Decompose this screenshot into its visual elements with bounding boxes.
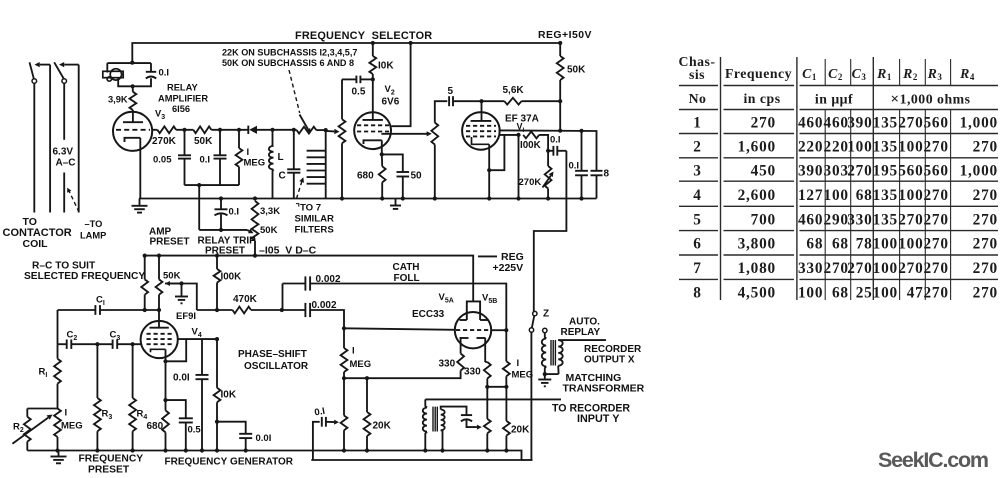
svg-text:270: 270 — [923, 260, 948, 277]
svg-text:390: 390 — [847, 115, 872, 132]
junction -105 100K — [215, 254, 219, 258]
wire S1 right — [49, 65, 51, 213]
wire osc cap to wiper — [467, 420, 477, 427]
arrow osc pot B wiper — [475, 426, 478, 428]
svg-text:100: 100 — [873, 260, 898, 277]
wire V2 cathode down — [381, 140, 383, 154]
junction 0.5 osc bus — [184, 448, 188, 452]
svg-text:270: 270 — [898, 211, 923, 228]
junction feedback line — [197, 183, 201, 187]
wire V5A grid line — [344, 328, 455, 330]
junction 20K left top — [365, 376, 369, 380]
svg-text:50: 50 — [411, 171, 423, 182]
junction 1MEG left node — [342, 376, 346, 380]
svg-text:270: 270 — [898, 115, 923, 132]
tube V1 plate bar — [471, 120, 492, 122]
junction R4 bus — [131, 448, 135, 452]
svg-text:ECC33: ECC33 — [412, 309, 445, 320]
wire 50 bottom — [402, 177, 404, 199]
svg-text:460: 460 — [798, 115, 823, 132]
junction top bus screen — [409, 41, 413, 45]
svg-text:135: 135 — [873, 139, 898, 156]
wire bottom bus — [27, 451, 521, 461]
potentiometer V2 grid — [339, 119, 346, 143]
junction trip cap top — [219, 196, 223, 200]
wire osc xfmr sec top — [441, 407, 467, 416]
arrowhead V2 out — [427, 131, 432, 136]
svg-text:I: I — [65, 408, 68, 419]
capacitor C filter — [287, 168, 300, 170]
junction 0.5 node — [371, 77, 375, 81]
junction -105 RC — [143, 254, 147, 258]
wire 1MEG relay top — [238, 130, 240, 148]
junction V1 plate node — [479, 99, 483, 103]
tube V4 grid1 dashes — [147, 333, 173, 335]
table rule 9 — [679, 278, 998, 280]
wire cap 0.1 bottom lead — [133, 78, 151, 86]
svg-text:OUTPUT X: OUTPUT X — [584, 355, 635, 366]
svg-text:0.I: 0.I — [159, 68, 170, 79]
tube V2 grid1 dashes — [357, 124, 389, 126]
svg-text:FREQUENCY: FREQUENCY — [79, 454, 144, 465]
wire V3 cathode down — [139, 138, 141, 199]
wire 3.9K to plate — [132, 110, 134, 122]
svg-text:127: 127 — [798, 187, 823, 204]
capacitor 0.1 osc — [321, 417, 323, 427]
wire plate node to 5.6K — [482, 100, 505, 102]
wire 680 bottom — [381, 182, 383, 198]
wire 50K amp pot top — [158, 256, 160, 280]
resistor 3.9K — [130, 92, 137, 110]
resistor R3 — [94, 398, 101, 431]
svg-text:270: 270 — [973, 187, 998, 204]
tube V2 envelope — [354, 112, 391, 149]
filter module line 2 — [307, 156, 326, 158]
wire 1MEG left top — [343, 328, 345, 348]
wire 20K left top — [366, 378, 368, 412]
svg-text:22K ON SUBCHASSIS I2,3,4,5,7: 22K ON SUBCHASSIS I2,3,4,5,7 — [222, 48, 357, 58]
wire 0.5 corner to pot — [341, 79, 343, 119]
wire C1 left — [58, 309, 96, 311]
tube V4 envelope — [141, 321, 178, 358]
svg-text:in cps: in cps — [743, 91, 780, 106]
wire cap C bottom — [293, 173, 295, 199]
junction 0.002 node — [280, 308, 284, 312]
wire 0.002B left — [282, 309, 306, 311]
node relay top — [130, 61, 134, 65]
svg-text:135: 135 — [873, 187, 898, 204]
potentiometer 50K relay trip — [252, 222, 259, 241]
junction 330B node — [485, 385, 489, 389]
table rule 4 — [679, 157, 998, 159]
wire V5B cathode down — [484, 338, 486, 362]
svg-text:270: 270 — [898, 260, 923, 277]
table rule 8 — [679, 254, 998, 256]
svg-text:100: 100 — [873, 236, 898, 253]
capacitor 0.1 output — [552, 146, 554, 156]
junction R4 top — [131, 342, 135, 346]
wire T2 primary top — [545, 333, 546, 339]
wire osc xfmr primary top — [425, 399, 427, 407]
wire V5A cathode down — [460, 338, 462, 354]
table vertical C2|C3 — [850, 59, 852, 300]
node relay bottom — [131, 84, 135, 88]
svg-text:PRESET: PRESET — [150, 237, 190, 248]
junction 100K node — [516, 133, 520, 137]
svg-text:100: 100 — [898, 187, 923, 204]
wire 0.002A left — [283, 283, 306, 285]
svg-text:470K: 470K — [233, 294, 258, 305]
svg-text:AUTO.: AUTO. — [569, 317, 600, 328]
wire V5B grid line — [491, 329, 507, 331]
junction 1MEG bus — [55, 448, 59, 452]
svg-text:AMPLIFIER: AMPLIFIER — [158, 94, 208, 104]
wire osc xfmr sec bottom — [441, 430, 443, 450]
wire V4 g3 box — [166, 339, 187, 361]
svg-text:OSCILLATOR: OSCILLATOR — [244, 361, 309, 372]
svg-text:1,080: 1,080 — [738, 260, 776, 277]
svg-text:100: 100 — [798, 284, 823, 301]
rheostat 270K — [545, 166, 552, 189]
wire C2-C3 — [71, 343, 112, 345]
svg-text:330: 330 — [798, 260, 823, 277]
wire 10K osc bottom — [216, 402, 218, 450]
resistor R4 — [129, 398, 136, 431]
wire g node down — [518, 135, 520, 199]
switch Z blade — [532, 316, 534, 328]
capacitor C1 — [94, 305, 96, 315]
resistor 1MEG right — [503, 361, 510, 376]
junction trip line — [219, 228, 223, 232]
junction V1 cathode bus — [487, 196, 491, 200]
wire 1MEG right bottom — [505, 376, 507, 387]
wire relay left lead — [106, 63, 108, 72]
wire inductor L top — [272, 130, 274, 146]
junction screen 10K — [215, 337, 219, 341]
svg-text:680: 680 — [357, 171, 374, 182]
wire pot left bottom — [343, 430, 345, 450]
capacitor 0.002 A — [304, 276, 306, 290]
svg-text:50K: 50K — [567, 65, 586, 76]
wire trip 0.1 bottom — [220, 214, 222, 230]
junction out caps A — [558, 129, 562, 133]
wire R3 top — [96, 344, 98, 398]
svg-text:LAMP: LAMP — [80, 231, 106, 241]
wire 0.002A right — [310, 284, 506, 331]
transformer T2 core — [551, 340, 555, 366]
resistor 10K osc — [214, 388, 221, 403]
svg-text:5: 5 — [693, 211, 701, 228]
wire pot B top — [486, 387, 488, 419]
wire 0.01B bottom — [245, 438, 247, 450]
svg-text:1,600: 1,600 — [738, 139, 776, 156]
svg-text:68: 68 — [832, 236, 849, 253]
wire R2 top — [26, 409, 28, 417]
svg-text:135: 135 — [873, 115, 898, 132]
wire C1 right — [100, 309, 159, 311]
wire cap 8 bottom — [596, 175, 598, 198]
potentiometer osc left — [341, 416, 348, 431]
wire T2 bottoms link — [545, 373, 559, 375]
junction pot B bus — [485, 448, 489, 452]
wire shunt 0.1 top — [581, 131, 583, 171]
ground V3 cathode — [132, 205, 148, 207]
resistor 1MEG relay — [236, 148, 243, 167]
svg-text:RELAY: RELAY — [167, 83, 198, 93]
table vertical freq|C1 — [796, 57, 798, 300]
tube V5 cathode B — [477, 337, 486, 339]
junction g node bus — [516, 196, 520, 200]
svg-text:TRANSFORMER: TRANSFORMER — [563, 383, 645, 395]
svg-text:270K: 270K — [152, 136, 177, 147]
wire V1 g line — [500, 134, 519, 136]
wire plate node to EF91 — [158, 310, 160, 328]
svg-text:5: 5 — [448, 86, 454, 97]
arrow trip pot wiper — [247, 230, 249, 231]
svg-text:0.I: 0.I — [314, 406, 326, 419]
tube V5 grid dashes — [456, 329, 490, 331]
svg-text:L: L — [278, 152, 284, 163]
tube V3 plate bar — [123, 121, 143, 123]
ground stub amp — [181, 284, 183, 296]
svg-text:8: 8 — [693, 284, 701, 301]
svg-text:270: 270 — [973, 139, 998, 156]
potentiometer V1 grid — [431, 123, 438, 145]
svg-text:270: 270 — [923, 187, 948, 204]
wire 0.05 cap bottom — [184, 159, 186, 186]
svg-text:COIL: COIL — [23, 238, 49, 250]
resistor 330 B — [484, 362, 491, 379]
svg-text:0.0I: 0.0I — [256, 433, 272, 444]
switch S1 contact — [32, 79, 37, 84]
capacitor 0.05 — [178, 154, 191, 156]
capacitor 0.5 osc — [179, 417, 193, 419]
svg-text:1,000: 1,000 — [960, 115, 998, 132]
resistor R-C — [141, 279, 148, 294]
wire cathode node link — [487, 386, 506, 388]
wire 0.1b cap bottom — [219, 159, 221, 186]
ground stub T2 — [544, 374, 546, 379]
wire cap5 to plate — [453, 100, 482, 102]
svg-text:PHASE–SHIFT: PHASE–SHIFT — [238, 349, 307, 360]
table rule 2 — [679, 109, 998, 111]
svg-text:100: 100 — [824, 187, 849, 204]
junction 1MEG right node — [504, 385, 508, 389]
wire R1 bottom — [57, 384, 59, 409]
svg-text:50K: 50K — [163, 271, 181, 282]
arrow amp pot wiper — [170, 283, 182, 285]
svg-text:sis: sis — [689, 67, 705, 82]
svg-text:270: 270 — [847, 163, 872, 180]
wire 100K osc bottom — [216, 283, 218, 310]
resistor 470K — [233, 307, 252, 314]
svg-text:450: 450 — [751, 163, 776, 180]
wire S2 left down lower — [63, 173, 65, 213]
capacitor 0.1 shunt — [575, 170, 588, 172]
table rule 6 — [679, 205, 998, 207]
wire 100K right — [539, 135, 548, 166]
wire C2 left — [58, 343, 67, 345]
junction V2 pot bus — [340, 196, 344, 200]
svg-text:0.I: 0.I — [229, 207, 240, 218]
wire 50K 150V top — [559, 43, 561, 56]
wire feedback vertical — [198, 185, 200, 230]
tube V2 cathode — [364, 140, 382, 144]
svg-text:2,600: 2,600 — [738, 187, 776, 204]
tube V2 grid2 dashes — [357, 131, 389, 133]
svg-text:1: 1 — [693, 115, 701, 132]
wire C1 corner down — [57, 310, 59, 344]
ground stub freq preset — [58, 451, 60, 456]
wire osc xfmr primary bottom — [425, 432, 427, 451]
svg-text:270: 270 — [923, 236, 948, 253]
wire pot left top — [343, 378, 345, 415]
svg-text:68: 68 — [806, 236, 823, 253]
switch S1 blade — [30, 62, 34, 78]
wire pot B bottom — [486, 433, 488, 450]
svg-text:0.0I: 0.0I — [173, 373, 190, 384]
wire wiper node to 470K — [197, 309, 233, 311]
wire 0.1b cap top — [219, 130, 221, 156]
wire 330B top link — [485, 361, 487, 363]
wire 10K osc top — [216, 339, 218, 388]
svg-text:MEG: MEG — [512, 370, 534, 381]
svg-text:560: 560 — [898, 163, 923, 180]
capacitor 0.01 osc — [196, 374, 209, 376]
wire 330B bottom — [486, 379, 488, 387]
capacitor 0.1 relay — [146, 71, 156, 73]
svg-text:I00K: I00K — [221, 272, 242, 283]
junction 0.01B tap — [215, 420, 219, 424]
svg-text:6I56: 6I56 — [172, 104, 190, 114]
capacitor 0.002 B — [304, 303, 306, 317]
wire 20K right bottom — [505, 436, 507, 451]
filter module line 5 — [307, 176, 326, 178]
svg-text:I00K: I00K — [520, 140, 541, 151]
junction 100K plate line — [215, 308, 219, 312]
wire 270K bottom — [547, 189, 549, 199]
svg-text:MEG: MEG — [244, 158, 266, 169]
svg-text:3: 3 — [693, 163, 701, 180]
junction 0.1 out node — [546, 149, 550, 153]
junction 20K right bus — [504, 448, 508, 452]
potentiometer 1MEG freq — [54, 409, 61, 438]
capacitor 8 — [591, 170, 603, 172]
table vertical C1|C2 — [824, 59, 826, 300]
resistor 680 — [379, 166, 386, 182]
svg-text:I0K: I0K — [378, 61, 394, 72]
svg-text:25: 25 — [856, 284, 873, 301]
ground V3 stub — [139, 199, 141, 206]
svg-text:+225V: +225V — [493, 262, 524, 274]
svg-text:0.I: 0.I — [550, 135, 561, 146]
junction 270K bus — [546, 196, 550, 200]
svg-text:MEG: MEG — [61, 421, 83, 432]
capacitor 0.01 B — [239, 433, 252, 435]
svg-text:No: No — [689, 91, 707, 106]
capacitor 5 — [448, 96, 450, 106]
svg-text:4,500: 4,500 — [738, 284, 776, 301]
junction 0.5 tap — [163, 398, 167, 402]
switch S2 blade — [54, 62, 64, 78]
svg-text:303: 303 — [824, 163, 849, 180]
table rule 5 — [679, 180, 998, 182]
junction top bus 10K — [371, 41, 375, 45]
wire V2 out — [381, 133, 427, 135]
svg-text:220: 220 — [824, 139, 849, 156]
svg-text:FILTERS: FILTERS — [295, 225, 335, 236]
wire 10K bottom — [372, 74, 374, 79]
wire k box — [489, 135, 504, 170]
svg-text:220: 220 — [798, 139, 823, 156]
svg-text:A–C: A–C — [56, 158, 76, 169]
svg-text:560: 560 — [923, 163, 948, 180]
junction 1MEG relay — [237, 128, 241, 132]
ground main bus — [390, 205, 401, 207]
switch S2 contact — [62, 79, 67, 84]
rheostat R2 — [24, 417, 31, 442]
wire 0.5 left — [342, 78, 356, 80]
ground bus stub — [395, 199, 397, 206]
svg-text:FREQUENCY SELECTOR: FREQUENCY SELECTOR — [295, 30, 432, 42]
wire V1 pot bottom — [434, 145, 436, 199]
node filter output — [324, 128, 328, 132]
resistor 1MEG left — [341, 348, 348, 372]
junction pot left bus — [342, 448, 346, 452]
svg-text:680: 680 — [147, 421, 164, 432]
tube V5 cathode A — [460, 337, 469, 339]
junction 0.01 bus — [200, 448, 204, 452]
filter module line 4 — [307, 170, 326, 172]
resistor 20K left — [364, 412, 371, 436]
svg-text:SeekIC.com: SeekIC.com — [878, 448, 989, 472]
table vertical R3|R4 — [950, 59, 952, 300]
svg-text:SELECTED FREQUENCY: SELECTED FREQUENCY — [24, 271, 145, 282]
svg-text:Frequency: Frequency — [725, 66, 792, 81]
junction R3 top — [95, 342, 99, 346]
relay coil K1 — [103, 71, 123, 77]
svg-text:Z: Z — [543, 309, 549, 320]
wire 0.5 right — [360, 78, 372, 80]
potentiometer 22K/50K filter — [297, 127, 317, 134]
wire screen feed — [392, 43, 411, 126]
junction L branch — [270, 128, 274, 132]
wire 0.5 osc branch — [166, 400, 186, 418]
table vertical R2|R3 — [924, 59, 926, 300]
wire recorder output — [558, 339, 606, 341]
wire 100K osc top — [216, 256, 218, 269]
tube V5 plate cup — [467, 301, 480, 320]
tube V4 grid3 dashes — [147, 343, 173, 345]
svg-text:68: 68 — [832, 284, 849, 301]
junction top bus 50K — [558, 41, 562, 45]
tube V1 grid3 dashes — [466, 135, 496, 137]
transformer T1 secondary — [441, 410, 445, 431]
arrow 270K wiper — [543, 176, 551, 188]
wire 20K left bottom — [366, 436, 368, 451]
wire RC chain top — [144, 256, 146, 280]
svg-text:195: 195 — [873, 163, 898, 180]
table vertical chassis|freq — [720, 57, 722, 300]
svg-text:50K ON SUBCHASSIS 6 AND 8: 50K ON SUBCHASSIS 6 AND 8 — [222, 58, 354, 68]
wire S2 right — [78, 65, 80, 213]
filter module line 1 — [307, 150, 326, 152]
junction 3.3K top — [253, 196, 257, 200]
svg-text:50K: 50K — [194, 136, 213, 147]
wire diode to L — [257, 129, 297, 131]
transformer T2 secondary — [558, 340, 563, 366]
svg-text:100: 100 — [873, 284, 898, 301]
